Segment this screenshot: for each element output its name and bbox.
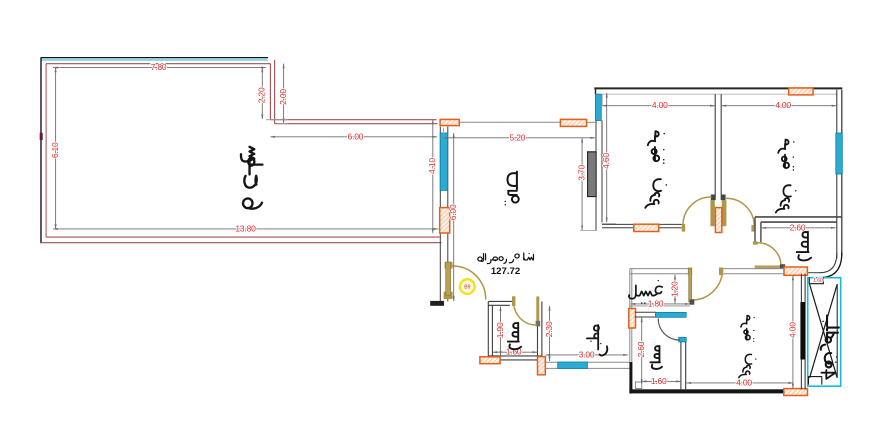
hall left wall outer line xyxy=(439,127,441,302)
hall right wall sliding panel xyxy=(588,152,597,197)
corridor outer rounded corner wall xyxy=(820,253,842,278)
room label: hall (sala) xyxy=(505,172,518,205)
dim line 6.10 xyxy=(55,68,57,229)
door D5 between bedrooms xyxy=(715,208,721,233)
terrace outer top wall xyxy=(41,57,268,59)
bottom outer wall xyxy=(629,389,784,393)
laundry left wall inner line xyxy=(631,269,633,362)
terrace inner bottom wall xyxy=(46,236,440,238)
hall left wall bottom cap xyxy=(430,301,444,306)
svg-text:5.20: 5.20 xyxy=(510,132,526,142)
svg-text:6.00: 6.00 xyxy=(448,204,458,220)
window W5 kitchen bottom wall xyxy=(558,362,588,369)
svg-text:1.60: 1.60 xyxy=(813,278,823,284)
door D6 in bedroom1 bottom wall xyxy=(634,224,659,231)
dim line 2.60 upper bathroom xyxy=(762,227,836,229)
door jamb block bottom of hall door xyxy=(444,292,453,299)
laundry left wall outer line xyxy=(629,269,631,362)
door D4 in bedrooms top wall xyxy=(789,88,813,95)
south bathroom right wall outer line xyxy=(685,342,687,389)
dim extension 2.20 bottom xyxy=(266,119,288,121)
dim line 2.20 xyxy=(261,68,263,119)
bedroom door jamb right xyxy=(722,200,727,226)
dim line 2.60 south bathroom xyxy=(641,318,643,385)
window W7 right of sw bathroom xyxy=(538,357,546,375)
svg-text:4.00: 4.00 xyxy=(775,100,791,110)
wall above balcony upper line xyxy=(807,272,820,274)
bedroom door jamb left xyxy=(710,200,714,226)
sw bathroom door leaf xyxy=(536,297,539,327)
svg-text:4.10: 4.10 xyxy=(427,158,437,174)
svg-text:3.70: 3.70 xyxy=(576,165,586,181)
kitchen bottom wall upper line xyxy=(544,361,629,363)
svg-text:1.90: 1.90 xyxy=(495,322,505,338)
terrace step outer right wall xyxy=(274,60,276,124)
south bathroom top wall lower line xyxy=(635,316,656,318)
corridor inner rounded corner wall xyxy=(820,253,837,273)
room label: south bathroom (hammam) xyxy=(650,346,662,369)
balcony diagonal 1 xyxy=(810,284,838,378)
kitchen top wall lower line left xyxy=(630,273,688,275)
room label: ne bathroom (hammam) xyxy=(797,232,811,261)
svg-text:4.00: 4.00 xyxy=(787,322,797,338)
svg-text:4.00: 4.00 xyxy=(736,377,752,387)
terrace outer bottom wall xyxy=(41,242,442,244)
laundry door jamb left xyxy=(688,268,692,276)
window W3 bedroom2 right wall xyxy=(836,133,843,174)
sw bathroom door end block xyxy=(536,321,541,326)
svg-text:13.80: 13.80 xyxy=(235,223,256,233)
laundry door swing arc xyxy=(692,270,723,301)
terrace step inner bottom wall xyxy=(270,119,436,121)
upper bathroom wall end cap xyxy=(753,241,758,244)
dim line 1.80 xyxy=(631,303,690,305)
room label: balcony (balcona4) xyxy=(821,316,839,379)
hall left wall inner line lower xyxy=(447,296,449,301)
glass partition south bathroom top xyxy=(655,312,686,317)
duct box at south bathroom corner xyxy=(635,382,641,389)
dim line 1.60 south bathroom xyxy=(642,380,681,382)
balcony bottom step notch xyxy=(809,377,822,385)
dim line 4.00 south bedroom width xyxy=(686,382,793,384)
dim line 4.00 bedroom1 xyxy=(602,105,715,107)
sw bathroom top wall lower line a xyxy=(488,304,510,306)
hall top wall thin line left xyxy=(459,121,560,123)
dim line 4.00 south bedroom height xyxy=(792,276,794,389)
svg-text:1.20: 1.20 xyxy=(669,281,679,297)
upper bathroom door end block xyxy=(780,264,785,269)
laundry door leaf xyxy=(689,269,692,302)
upper bathroom top wall upper line xyxy=(755,216,842,218)
dim line 1.90 xyxy=(500,307,502,356)
middle wall right end cap xyxy=(721,195,726,201)
svg-text:2.30: 2.30 xyxy=(544,321,554,337)
door D8 in bottom wall xyxy=(784,389,808,396)
terrace step inner right wall xyxy=(269,64,271,120)
bedroom2 right wall inner line xyxy=(836,90,838,258)
south bathroom top wall upper line xyxy=(635,311,656,313)
upper bathroom door swing arc xyxy=(758,243,781,266)
kitchen bottom wall lower line xyxy=(544,367,629,369)
laundry bottom line xyxy=(630,305,690,307)
bedrooms top wall inner face line xyxy=(596,93,837,95)
door jamb at bedroom1 bottom wall end xyxy=(682,224,685,232)
svg-text:B9: B9 xyxy=(464,285,470,291)
upper bathroom door leaf xyxy=(755,265,781,269)
sw bathroom door swing arc xyxy=(514,303,537,326)
kitchen top wall lower line right xyxy=(723,273,784,275)
kitchen top wall upper line left xyxy=(630,268,688,270)
sw bathroom door jamb xyxy=(512,296,515,306)
dim line 6.00 vertical xyxy=(453,133,455,301)
dim line 4.00 bedroom2 xyxy=(722,105,837,107)
room label: sw bathroom (hammam) xyxy=(508,323,521,349)
door jamb block top of hall door xyxy=(445,262,453,269)
svg-text:2.60: 2.60 xyxy=(636,341,646,357)
dim line 4.60 xyxy=(606,93,608,222)
dim line 5.20 xyxy=(444,137,596,139)
room label: laundry (ghaseel) xyxy=(629,281,662,303)
svg-text:4.00: 4.00 xyxy=(652,100,668,110)
upper bathroom top wall lower line xyxy=(761,221,837,223)
bedroom1 bottom wall lower line xyxy=(602,227,682,229)
title text: thalath ghoraf wa sala xyxy=(478,253,534,264)
hall right wall outer line xyxy=(595,121,597,231)
hall door leaf xyxy=(446,262,451,295)
svg-text:2.00: 2.00 xyxy=(278,89,288,105)
sw bathroom bottom wall lower line xyxy=(488,359,542,361)
door D2 in hall top wall xyxy=(560,119,586,126)
dim line 4.10 xyxy=(432,120,434,234)
dim line 2.00 xyxy=(283,64,285,123)
sw bathroom right wall inner line xyxy=(537,301,539,356)
svg-text:6.00: 6.00 xyxy=(348,131,364,141)
south bathroom right wall inner line xyxy=(680,342,682,389)
svg-text:1.60: 1.60 xyxy=(651,376,667,386)
light fixture symbol xyxy=(460,279,475,294)
laundry door end block xyxy=(690,299,695,304)
balcony top step notch xyxy=(809,278,823,284)
door jamb right of corridor opening xyxy=(751,225,755,232)
window W2 bedroom1 left wall xyxy=(595,94,601,120)
svg-text:2.60: 2.60 xyxy=(790,222,806,232)
dim line 3.70 xyxy=(581,138,583,230)
hall door swing arc xyxy=(453,266,486,299)
room label: bedroom2 (ghurfat nawm) xyxy=(776,140,796,213)
hall right wall inner line xyxy=(601,121,603,223)
sw bathroom left wall inner line xyxy=(491,305,493,356)
dim line 1.20 xyxy=(674,275,676,304)
svg-text:127.72: 127.72 xyxy=(491,266,520,277)
window W6 under sw bathroom xyxy=(480,357,500,364)
bedroom1 door swing arc xyxy=(683,197,711,225)
door D7 kitchen top wall xyxy=(784,267,807,275)
sw bathroom top wall upper line a xyxy=(488,300,514,302)
dim extension 3.70 bottom xyxy=(580,229,597,231)
dim line 13.80 xyxy=(53,228,438,230)
sw bathroom left wall outer line xyxy=(487,301,489,356)
terrace inner left wall xyxy=(45,64,47,237)
balcony outline xyxy=(808,278,841,387)
balcony diagonal 2 xyxy=(810,284,838,378)
room label: kitchen (matbakh) xyxy=(587,325,607,356)
bedrooms middle wall right line xyxy=(720,94,722,200)
south bathroom door swing arc xyxy=(658,319,679,340)
upper bathroom left wall outer line xyxy=(754,217,756,243)
svg-text:6.10: 6.10 xyxy=(50,142,60,158)
bedroom1 bottom wall upper line xyxy=(602,223,682,225)
hall top wall thin line right xyxy=(587,121,596,123)
dim line 6.00 horizontal xyxy=(270,136,437,138)
terrace inner top wall xyxy=(46,63,271,65)
bedrooms middle wall left line xyxy=(714,94,716,200)
sw bathroom right wall outer line xyxy=(541,301,543,356)
room label: bedroom1 (ghurfat nawm) xyxy=(645,131,666,208)
door D1 in hall top wall xyxy=(440,119,459,125)
dim line 7.80 xyxy=(53,67,266,69)
balcony inner right line xyxy=(836,284,838,378)
bedrooms outer top wall black line xyxy=(594,87,842,89)
svg-text:1.80: 1.80 xyxy=(648,298,664,308)
upper bathroom left wall inner line xyxy=(760,222,762,242)
laundry door jamb right xyxy=(719,268,723,276)
room label: bedroom3 (ghurfat nawm) xyxy=(739,316,756,378)
middle wall left end cap xyxy=(711,195,716,201)
dim extension 2.00 bottom xyxy=(277,123,288,125)
room label: terrace (sath6) xyxy=(241,147,262,209)
south bedroom right wall inner line xyxy=(800,274,802,390)
bedroom1 left wall edge above window xyxy=(595,88,597,95)
terrace left wall column marker xyxy=(40,133,43,140)
window W4 laundry left wall xyxy=(629,309,636,329)
hall left wall inner line mid xyxy=(447,233,449,262)
terrace step outer bottom wall xyxy=(275,123,438,125)
hall left wall inner line upper xyxy=(447,127,449,208)
svg-text:3.00: 3.00 xyxy=(579,349,595,359)
sw bathroom bottom wall upper line xyxy=(488,355,542,357)
bedroom2 right wall outer line xyxy=(841,90,843,256)
kitchen top wall upper line right xyxy=(723,268,784,270)
dim line 3.00 xyxy=(546,354,628,356)
south bathroom left wall lower black xyxy=(629,362,632,394)
dim extension bedroom1 left xyxy=(601,95,603,106)
window W8 south bedroom right wall xyxy=(800,302,805,360)
svg-text:7.80: 7.80 xyxy=(151,62,167,72)
svg-text:4.60: 4.60 xyxy=(601,153,611,169)
glass door leaf south bathroom xyxy=(679,337,687,342)
bedroom2 door swing arc xyxy=(727,198,755,226)
window W1 in hall left wall xyxy=(440,133,447,190)
svg-text:2.20: 2.20 xyxy=(257,87,267,103)
dim extension 5.20 left xyxy=(443,128,445,138)
terrace outer left wall xyxy=(40,57,42,243)
door D3 in hall left wall xyxy=(440,208,450,233)
dim extension 4.60 bottom xyxy=(601,223,616,225)
dim line 2.30 xyxy=(549,306,551,361)
south bedroom right wall outer line xyxy=(804,274,806,390)
terrace top window strip xyxy=(42,59,268,61)
dim line 1.60 sw bathroom xyxy=(493,351,538,353)
